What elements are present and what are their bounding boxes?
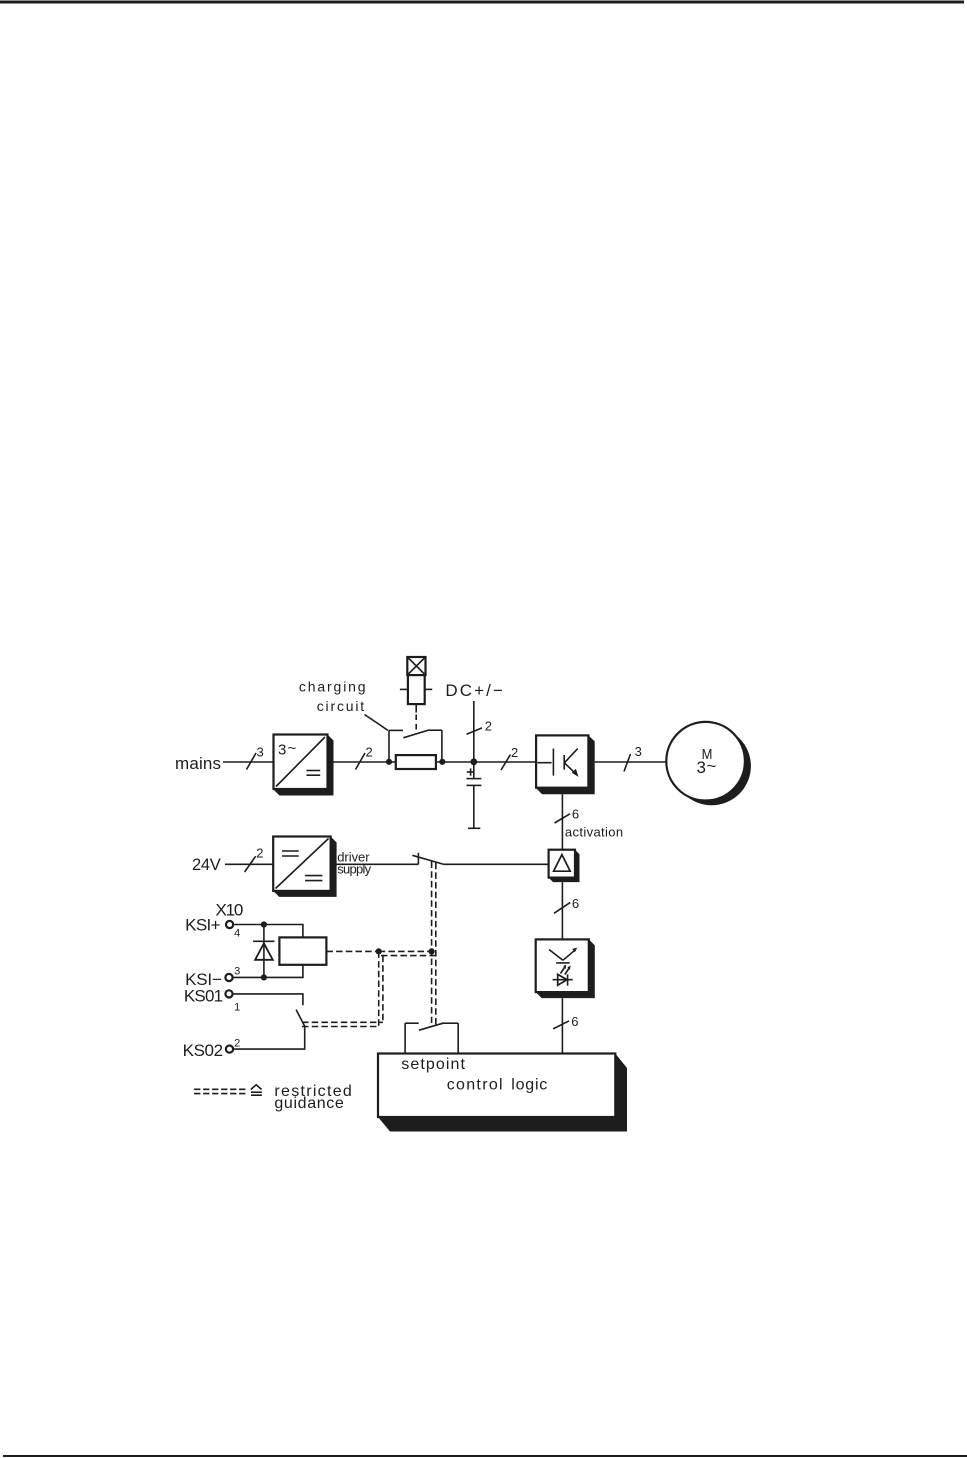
wire KS01 (233, 994, 303, 1005)
svg-text:3: 3 (697, 758, 706, 777)
legend: restricted guidance (194, 1083, 352, 1112)
dashed bus pair horizontal A-B (379, 950, 432, 952)
resistor (charging) (396, 755, 436, 769)
junction node left of resistor (386, 759, 392, 765)
dashed bus pair horizontal to KS contact (302, 1021, 383, 1023)
motor M 3~ (666, 722, 751, 805)
svg-text:activation: activation (565, 825, 623, 840)
slash 2-wire mark (501, 755, 511, 771)
relay contact KS01/KS02 blade (296, 1010, 305, 1027)
slash 2-wire mark (245, 856, 256, 872)
leader line (365, 715, 389, 731)
svg-text:2: 2 (511, 745, 518, 760)
svg-text:~: ~ (707, 757, 717, 776)
rectifier block (3~ / =) (274, 735, 334, 796)
slash 3-wire mark (624, 754, 631, 772)
wire KSI+ (233, 925, 303, 938)
junction node (261, 921, 267, 927)
STO break contact (driver supply switch) (412, 853, 443, 865)
terminal KS01 (225, 990, 232, 997)
svg-text:KS02: KS02 (183, 1041, 224, 1060)
wire optocoupler to control logic (561, 998, 563, 1054)
terminal KS02 (226, 1046, 233, 1053)
wire 24V to DC/DC (225, 863, 273, 865)
relay coil K1 with fuse (charging bypass actuator) (400, 657, 432, 713)
svg-text:KS01: KS01 (184, 987, 223, 1006)
svg-text:DC+/−: DC+/− (445, 681, 503, 700)
DC/DC converter (= / =) driver supply (273, 837, 336, 897)
setpoint switch on control logic (405, 1023, 458, 1055)
dashed bus pair vertical below node A (378, 951, 380, 1026)
wire resistor to inverter (436, 761, 537, 763)
svg-text:KSI+: KSI+ (185, 916, 221, 935)
slash 6-wire mark (555, 814, 571, 823)
wire driver to optocoupler (561, 882, 563, 939)
wire DC/DC to STO switch (331, 863, 419, 865)
slash 2-wire mark (356, 753, 366, 770)
control logic block (378, 1054, 627, 1132)
svg-text:2: 2 (366, 745, 373, 760)
dashed bus pair vertical (STO to setpoint switch) (431, 862, 433, 1024)
svg-text:mains: mains (175, 754, 221, 773)
node B (dashed bus junction right) (429, 948, 435, 954)
wire mains to rectifier (223, 761, 274, 763)
activation line (inverter to driver) (561, 794, 563, 849)
dashed link relay coil to bus (326, 950, 377, 952)
svg-text:guidance: guidance (274, 1095, 343, 1112)
inverter IGBT block U2 (536, 735, 595, 794)
svg-text:4: 4 (234, 928, 240, 940)
junction node (261, 974, 267, 980)
slash 2-wire mark on DC tap (467, 728, 482, 734)
wire inverter to motor (595, 761, 667, 763)
dashed actuation link (415, 715, 417, 734)
svg-text:setpoint: setpoint (401, 1056, 465, 1073)
wire KS02 (233, 1026, 304, 1049)
svg-text:3: 3 (257, 745, 264, 760)
svg-text:~: ~ (288, 740, 297, 757)
svg-text:24V: 24V (192, 856, 221, 874)
svg-text:3: 3 (635, 744, 642, 759)
wire rectifier to charging circuit (328, 761, 396, 763)
suppressor diode V1 (253, 925, 274, 978)
DC bus capacitor (electrolytic, +) (467, 762, 482, 828)
svg-text:6: 6 (571, 1014, 578, 1029)
svg-text:2: 2 (485, 719, 492, 734)
svg-text:1: 1 (234, 1001, 240, 1013)
slash 3-phase mark (247, 753, 257, 770)
junction node DC bus (470, 758, 477, 765)
svg-text:3: 3 (278, 742, 286, 759)
relay coil K2 (279, 937, 326, 964)
bypass contactor switch frame (389, 730, 442, 762)
junction node right of resistor (439, 759, 445, 765)
svg-text:logic: logic (511, 1076, 547, 1093)
node A (dashed bus junction left) (376, 948, 382, 954)
svg-text:6: 6 (572, 896, 579, 911)
terminal KSI- (225, 974, 232, 981)
optocoupler U3 (536, 939, 595, 998)
slash 6-wire mark (553, 1021, 569, 1029)
svg-text:6: 6 (572, 807, 579, 822)
DC link tap wire (473, 701, 475, 762)
svg-text:3: 3 (234, 966, 240, 978)
wire switch to driver amplifier (443, 863, 549, 865)
svg-text:2: 2 (256, 846, 263, 861)
terminal KSI+ (226, 921, 233, 928)
svg-text:2: 2 (234, 1037, 240, 1049)
slash 6-wire mark (554, 902, 570, 913)
driver amplifier A1 (549, 850, 580, 882)
wire KSI- (233, 965, 303, 978)
svg-text:control: control (447, 1076, 503, 1093)
